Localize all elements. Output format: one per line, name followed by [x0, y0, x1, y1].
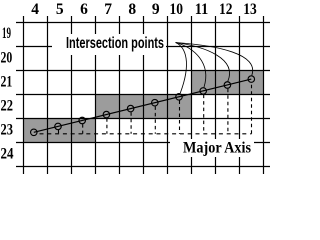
dashed drops from sample points [59, 89, 228, 134]
svg-text:10: 10 [169, 1, 183, 18]
svg-text:11: 11 [195, 1, 209, 18]
svg-text:5: 5 [56, 1, 64, 18]
leader curves to intersection points [176, 43, 253, 94]
svg-text:12: 12 [219, 1, 233, 18]
sampled line [34, 79, 252, 132]
svg-text:22: 22 [1, 98, 14, 115]
shaded pixel row 21 cols 11-13 [191, 70, 263, 94]
svg-text:19: 19 [2, 25, 11, 42]
white mask behind Major Axis label [170, 139, 254, 157]
svg-text:24: 24 [1, 146, 14, 163]
svg-text:20: 20 [1, 50, 13, 67]
svg-text:7: 7 [104, 1, 112, 18]
svg-text:21: 21 [1, 74, 13, 91]
intersection point circles [31, 76, 255, 136]
dashed major-axis line y=133.5 [40, 133, 252, 135]
white mask behind Intersection points label [52, 34, 166, 55]
dashed riser at x=251.5 [251, 83, 253, 134]
svg-text:23: 23 [1, 122, 14, 139]
svg-text:8: 8 [128, 1, 136, 18]
svg-text:Intersection points: Intersection points [66, 35, 164, 52]
horizontal grid lines y=22..166 [16, 23, 270, 167]
shaded pixel row 23 cols 4-6 [23, 118, 95, 142]
svg-text:9: 9 [152, 1, 160, 18]
raster-scan line sampling diagram [0, 0, 273, 177]
svg-text:13: 13 [243, 1, 257, 18]
svg-text:Major Axis: Major Axis [183, 140, 251, 157]
column labels [31, 1, 257, 18]
vertical grid lines x=23..263 [24, 16, 264, 174]
svg-text:6: 6 [80, 1, 88, 18]
svg-text:4: 4 [31, 1, 39, 18]
row labels [1, 25, 14, 162]
shaded pixel row 22 cols 7-10 [95, 94, 191, 118]
